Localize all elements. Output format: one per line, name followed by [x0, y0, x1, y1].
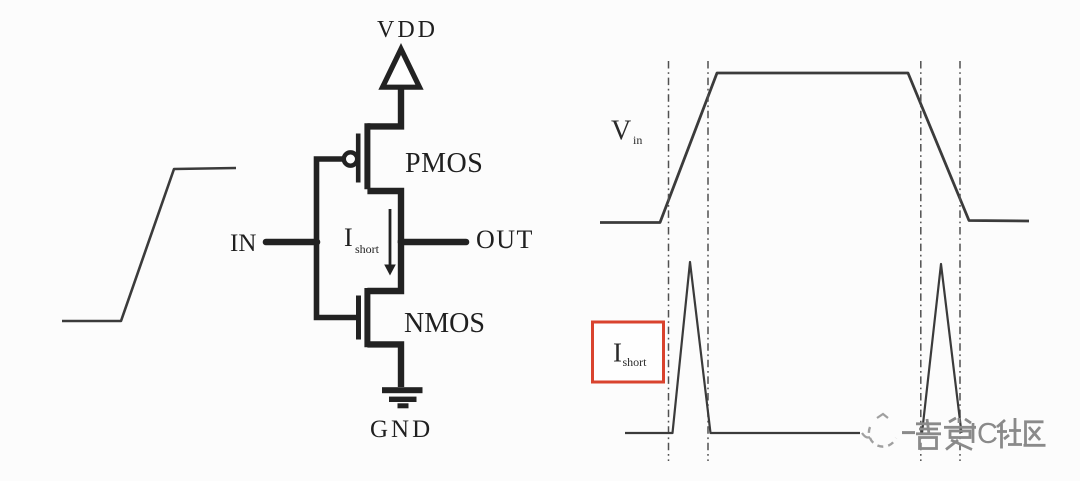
wire IN — [266, 239, 317, 246]
ground symbol — [382, 387, 423, 393]
wire NMOS drain to OUT node — [367, 240, 401, 291]
transistor NMOS gate bar — [356, 296, 361, 340]
svg-text:OUT: OUT — [476, 225, 534, 254]
svg-text:GND: GND — [370, 416, 433, 443]
svg-text:VDD: VDD — [377, 17, 438, 43]
watermark glyph wu — [916, 419, 941, 449]
watermark glyph ai — [944, 418, 976, 450]
transistor NMOS channel bar — [364, 288, 370, 347]
wire NMOS source to ground — [367, 344, 401, 387]
svg-text:short: short — [355, 242, 380, 256]
dashed marker line t3 — [920, 61, 922, 461]
transistor PMOS bubble — [344, 152, 357, 165]
watermark logo swirl — [862, 414, 896, 447]
svg-text:short: short — [623, 355, 648, 369]
svg-text:IC: IC — [969, 418, 998, 450]
dashed marker line t2 — [707, 61, 709, 461]
svg-text:PMOS: PMOS — [405, 148, 483, 179]
svg-text:NMOS: NMOS — [404, 308, 485, 339]
wire PMOS drain to OUT node — [367, 191, 401, 243]
svg-text:I: I — [613, 338, 622, 368]
watermark glyph qu — [1024, 422, 1046, 446]
wire PMOS source to VDD — [367, 84, 401, 126]
Ishort red highlight box — [593, 322, 664, 382]
watermark glyph she — [997, 418, 1022, 449]
svg-text:I: I — [344, 223, 353, 252]
current Ishort arrow — [389, 209, 392, 266]
transistor PMOS gate bar — [356, 134, 361, 183]
dashed marker line t1 — [668, 61, 670, 461]
Ishort pulse 2 — [922, 264, 962, 433]
Vin trapezoid waveform — [600, 73, 1029, 223]
Ishort pulse waveform — [625, 262, 860, 433]
wire OUT — [401, 239, 466, 246]
power VDD arrow symbol — [383, 49, 420, 87]
svg-text:in: in — [633, 133, 642, 147]
input ramp waveform — [62, 168, 236, 321]
transistor PMOS channel bar — [364, 123, 370, 189]
svg-text:IN: IN — [230, 230, 256, 257]
svg-text:V: V — [611, 116, 631, 147]
dashed marker line t4 — [959, 61, 961, 461]
wire gate rail — [317, 159, 357, 318]
watermark dash — [902, 431, 915, 434]
